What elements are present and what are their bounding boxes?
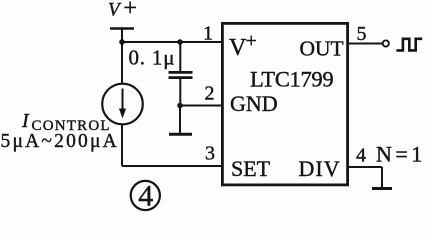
svg-text:SET: SET <box>231 156 271 181</box>
junction dot capacitor bottom <box>177 103 183 109</box>
svg-text:V: V <box>229 35 247 61</box>
junction dot capacitor top <box>177 39 183 45</box>
wire DIV pin 4 <box>348 166 383 168</box>
wire OUT pin 5 <box>348 43 383 45</box>
capacitor C 0.1µ bottom lead <box>179 79 181 106</box>
wire GND pin 2 <box>180 105 221 107</box>
ground below capacitor <box>179 106 181 134</box>
wire current source to SET <box>121 124 123 166</box>
wire SET pin 3 <box>122 165 221 167</box>
svg-text:1: 1 <box>203 23 213 45</box>
svg-text:3: 3 <box>205 143 215 165</box>
svg-text:+: + <box>246 30 257 52</box>
capacitor C 0.1µ plates <box>169 71 193 74</box>
current source arrow <box>122 89 124 113</box>
current source I_CONTROL circle <box>102 84 143 125</box>
IC U1 LTC1799 body <box>222 23 347 185</box>
svg-text:0. 1μ: 0. 1μ <box>129 46 176 70</box>
svg-text:I: I <box>21 110 30 132</box>
svg-text:4: 4 <box>356 145 366 167</box>
svg-text:5μA~200μA: 5μA~200μA <box>1 131 119 152</box>
wire V+ rail to pin 1 <box>122 41 221 43</box>
ground at DIV <box>372 187 392 190</box>
output open terminal <box>383 40 389 46</box>
svg-text:5: 5 <box>357 23 367 45</box>
svg-text:4: 4 <box>138 180 153 213</box>
capacitor C 0.1µ top lead <box>179 42 181 71</box>
svg-text:+: + <box>123 0 137 21</box>
svg-text:DIV: DIV <box>299 156 341 181</box>
svg-text:OUT: OUT <box>300 37 344 61</box>
svg-text:LTC1799: LTC1799 <box>250 67 333 92</box>
V+ supply terminal bar <box>110 27 134 30</box>
wire to current source top <box>121 42 123 85</box>
square wave symbol <box>396 39 422 51</box>
figure number circle <box>131 181 160 210</box>
node junction V+/cap/source <box>119 39 125 45</box>
svg-text:GND: GND <box>230 91 278 116</box>
wire V+ stub <box>121 29 123 43</box>
svg-text:2: 2 <box>205 83 215 105</box>
svg-text:N=1: N=1 <box>376 142 425 167</box>
